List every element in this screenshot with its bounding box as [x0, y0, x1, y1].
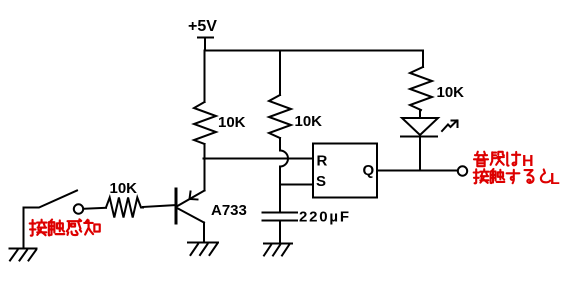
svg-text:220µF: 220µF	[299, 209, 351, 226]
svg-text:R: R	[317, 153, 328, 170]
svg-text:A733: A733	[211, 202, 247, 219]
svg-text:Q: Q	[363, 162, 375, 179]
svg-text:10K: 10K	[295, 113, 323, 130]
svg-text:H: H	[522, 153, 534, 170]
svg-text:S: S	[316, 173, 326, 190]
svg-text:10K: 10K	[218, 114, 246, 131]
svg-text:L: L	[550, 171, 560, 188]
svg-text:10K: 10K	[110, 180, 138, 197]
svg-text:+5V: +5V	[188, 18, 217, 35]
svg-text:10K: 10K	[437, 84, 465, 101]
